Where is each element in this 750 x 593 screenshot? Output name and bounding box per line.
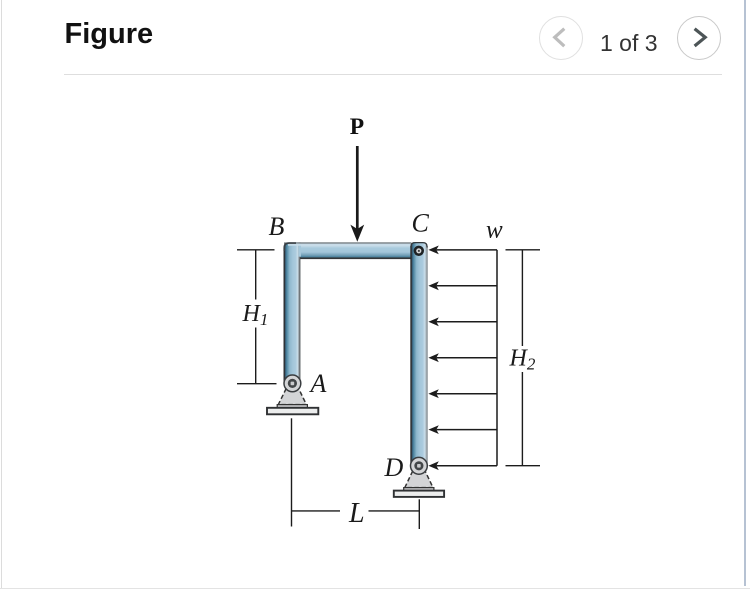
support D: pin inner ring <box>414 461 423 470</box>
dimension L: horizontal line left <box>292 510 341 512</box>
dimension H1: top tick <box>237 249 275 251</box>
load arrow 3 <box>428 317 497 326</box>
support D: pin housing <box>411 457 428 474</box>
dimension H2: top tick <box>506 249 541 251</box>
support A: foot strip <box>277 405 307 408</box>
svg-text:D: D <box>384 453 404 482</box>
support A: trapezoid body <box>278 389 306 405</box>
joint B interior patch <box>298 244 301 257</box>
dimension H1: vertical line lower <box>255 328 257 384</box>
support D: pin center square <box>417 464 421 468</box>
load arrow 5 <box>428 389 497 398</box>
prev chevron <box>555 29 565 47</box>
load arrow 2 <box>428 281 497 290</box>
svg-text:w: w <box>486 217 503 244</box>
dimension L: horizontal line right <box>369 510 420 512</box>
header title "Figure" <box>65 18 154 51</box>
support D: foot strip <box>404 488 434 491</box>
load arrow 1 <box>428 246 497 255</box>
load arrow 7 <box>428 461 497 470</box>
right scrollbar line <box>744 0 746 586</box>
distributed load tail line <box>496 250 498 466</box>
next chevron <box>695 29 706 46</box>
force P arrow shaft <box>356 146 359 230</box>
joint B outer corner outline <box>284 243 296 251</box>
pin C center dot <box>418 250 420 252</box>
bottom panel border <box>0 588 750 589</box>
dimension H2: bottom tick <box>506 465 541 467</box>
member CD top outline <box>411 243 427 248</box>
member BC top edge line <box>287 242 411 243</box>
support A: pin housing <box>284 375 301 392</box>
support A: base plate <box>267 408 318 415</box>
page indicator "1 of 3" <box>600 30 660 57</box>
svg-text:A: A <box>309 369 327 398</box>
next button <box>677 16 721 60</box>
member CD (right column, light blue) <box>410 242 427 467</box>
svg-text:B: B <box>269 212 285 241</box>
svg-text:P: P <box>350 114 364 140</box>
support A: pin center square <box>291 382 295 386</box>
load arrow 6 <box>428 425 497 434</box>
support D: base plate <box>394 491 444 497</box>
svg-text:C: C <box>412 209 430 238</box>
support D: trapezoid body <box>405 471 433 488</box>
svg-text:H1: H1 <box>242 301 269 329</box>
header divider <box>64 74 722 75</box>
load arrow 4 <box>428 353 497 362</box>
dimension H1: vertical line upper <box>255 250 257 300</box>
force P arrowhead <box>350 225 364 242</box>
dimension H2: vertical line upper <box>521 250 523 346</box>
left panel border <box>1 0 2 588</box>
dimension L: right extension line <box>418 499 420 529</box>
member AB (left column, light blue) <box>284 242 301 385</box>
dimension L: left extension line <box>291 418 293 526</box>
pin C <box>415 247 423 255</box>
member BC top highlight strip <box>288 244 411 246</box>
member BC (horizontal beam, light blue) <box>284 242 411 259</box>
dimension H1: bottom tick <box>237 383 277 385</box>
svg-text:H2: H2 <box>509 346 536 374</box>
prev button (disabled) <box>539 16 583 60</box>
svg-text:L: L <box>348 498 365 529</box>
dimension H2: vertical line lower <box>521 372 523 466</box>
support A: pin inner ring <box>288 379 297 388</box>
